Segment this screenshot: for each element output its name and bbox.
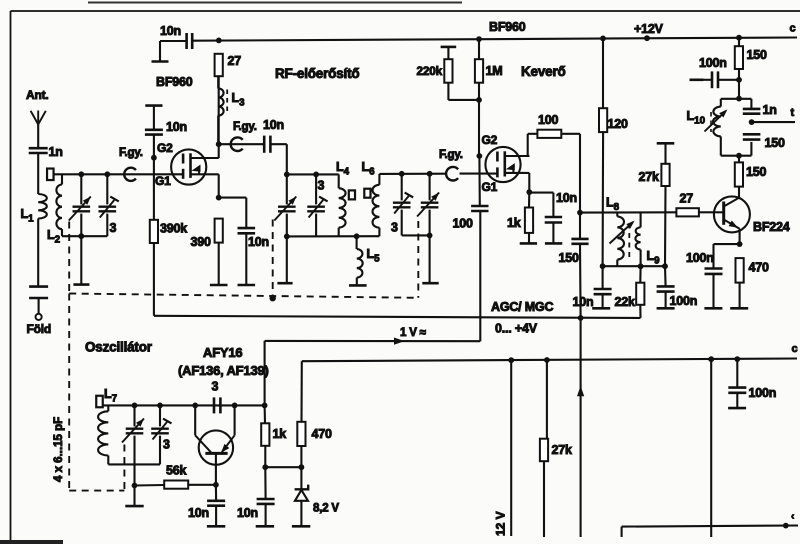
output tank frame bbox=[721, 98, 752, 100]
svg-text:c: c bbox=[792, 343, 798, 355]
inductor L6 bbox=[378, 174, 380, 185]
zener diode 8.2V bbox=[300, 467, 302, 489]
svg-text:10n: 10n bbox=[188, 506, 209, 520]
output tank bottom junction bbox=[736, 153, 742, 159]
wire source to 10n bypass bbox=[219, 197, 247, 199]
capacitor 100n to output tank bbox=[690, 79, 704, 82]
base wire AFY16 bbox=[215, 453, 217, 484]
capacitor 100n bottom right bbox=[736, 359, 738, 387]
trimmer C tuning (gang) input tank bbox=[80, 174, 82, 204]
svg-text:27: 27 bbox=[680, 192, 694, 206]
resistor 470 osc supply bbox=[297, 422, 305, 446]
svg-text:0... +4V: 0... +4V bbox=[495, 322, 538, 336]
resistor 100 mixer drain bbox=[537, 130, 561, 138]
capacitor 10n source bypass bbox=[238, 227, 256, 230]
capacitor 10n at G2 (top bar) bbox=[145, 104, 162, 107]
emitter 100n bypass bbox=[714, 243, 740, 245]
capacitor 10n osc emitter bbox=[264, 467, 266, 499]
wire G2 junction down to 390k (crosses G1 wire) bbox=[153, 158, 155, 220]
tank3 bottom wire bbox=[402, 234, 430, 236]
svg-text:BF960: BF960 bbox=[156, 75, 193, 89]
svg-text:10n: 10n bbox=[556, 191, 577, 205]
trimmer 3p input tank bbox=[106, 174, 108, 204]
capacitor 150 to AGC bbox=[579, 213, 581, 239]
wire osc tank to 56k node bbox=[133, 464, 135, 485]
capacitor 10n IF tank bottom bbox=[602, 266, 604, 289]
resistor 27 drain bbox=[218, 76, 220, 144]
emitter wire bbox=[739, 229, 741, 244]
tank3 ground stub bbox=[429, 235, 431, 283]
bottom bus wire bbox=[622, 526, 798, 527]
svg-text:100n: 100n bbox=[699, 56, 727, 70]
resistor 150 collector bbox=[738, 156, 740, 163]
output wire to edge bbox=[752, 121, 795, 123]
svg-text:100: 100 bbox=[453, 217, 474, 231]
resistor 27k lower bbox=[546, 360, 548, 439]
trimmer 3p tank2 bbox=[315, 174, 317, 204]
inductor L8 bbox=[616, 212, 618, 216]
osc output wire up bbox=[264, 341, 266, 406]
svg-text:10n: 10n bbox=[263, 118, 284, 132]
svg-text:100n: 100n bbox=[670, 294, 698, 308]
inductor L9 bbox=[640, 212, 642, 227]
gang dash from tank3 trimmer bbox=[417, 221, 419, 298]
svg-text:3: 3 bbox=[318, 179, 325, 193]
svg-text:AFY16: AFY16 bbox=[203, 345, 242, 360]
drain junction dot T1 bbox=[218, 144, 220, 158]
svg-text:390: 390 bbox=[191, 235, 212, 249]
svg-text:Oszcillátor: Oszcillátor bbox=[85, 340, 153, 355]
wire 390k to AGC corner bbox=[153, 243, 155, 316]
trimmer gang tank3 bbox=[429, 174, 431, 201]
capacitor 100 osc injection to G2 bbox=[478, 156, 480, 206]
core dashes L8-L9 bbox=[628, 224, 630, 258]
inductor L10 bbox=[713, 107, 721, 137]
transistor Q3 BF224 bbox=[714, 196, 750, 232]
wire antenna to L1 bbox=[37, 153, 39, 194]
wire down to interstage tank bbox=[286, 144, 288, 174]
wire 120 down to IF tank bottom bbox=[602, 132, 605, 266]
gang dash from tank2 trimmer bbox=[272, 220, 274, 298]
capacitor 100n IF bbox=[664, 266, 667, 286]
transistor T1 BF960 RF amp bbox=[171, 149, 206, 184]
svg-text:10n: 10n bbox=[573, 295, 594, 309]
svg-text:1n: 1n bbox=[763, 103, 777, 117]
svg-text:10n: 10n bbox=[237, 506, 258, 520]
wire down right section bbox=[710, 359, 712, 537]
inductor L5 bbox=[356, 236, 358, 249]
earth capacitor bbox=[29, 285, 48, 288]
tank3 top wire bbox=[379, 173, 446, 175]
resistor 470 emitter bbox=[736, 258, 744, 283]
svg-text:10n: 10n bbox=[166, 120, 187, 134]
svg-text:3: 3 bbox=[163, 438, 170, 452]
wire to Fold terminal bbox=[38, 298, 40, 315]
wire 100 ohm to IF tank top bbox=[579, 134, 581, 213]
transistor Q4 AFY16 bbox=[199, 430, 233, 464]
capacitor 3 osc feedback bbox=[213, 397, 216, 413]
svg-text:12 V: 12 V bbox=[494, 511, 508, 536]
inductor L2 bbox=[61, 174, 63, 184]
core symbol rects L4-L6 bbox=[349, 190, 355, 199]
svg-text:470: 470 bbox=[749, 261, 770, 275]
resistor 1k osc bbox=[264, 405, 266, 423]
wire 1k to zener node bbox=[265, 466, 301, 468]
oscillator injection wire bbox=[265, 340, 481, 342]
resistor 390k bbox=[150, 220, 158, 243]
svg-text:100n: 100n bbox=[686, 251, 714, 265]
12V feed line down bbox=[510, 360, 512, 536]
svg-text:470: 470 bbox=[312, 427, 333, 441]
ferrite bead arc on G1 wire bbox=[125, 173, 183, 175]
capacitor 10n top-left (supply decoupling) bbox=[160, 40, 187, 42]
svg-text:1M: 1M bbox=[486, 64, 503, 78]
bead arc mixer G1 bbox=[446, 167, 458, 181]
capacitor 10n mixer source bbox=[529, 192, 553, 194]
capacitor 150 output tank bbox=[743, 133, 761, 136]
svg-text:8,2 V: 8,2 V bbox=[313, 503, 339, 515]
svg-text:t: t bbox=[791, 107, 795, 119]
wire bus corner down to 470 bbox=[300, 361, 302, 422]
svg-text:10n: 10n bbox=[160, 24, 181, 38]
resistor 120 from rail bbox=[602, 38, 604, 108]
gang dash up to osc trimmer bbox=[123, 445, 125, 491]
svg-text:BF224: BF224 bbox=[753, 220, 790, 234]
IF tank bottom wire bbox=[603, 265, 665, 267]
svg-text:10n: 10n bbox=[248, 235, 269, 249]
svg-text:F.gy.: F.gy. bbox=[233, 121, 257, 133]
inductor L4 bbox=[338, 174, 340, 188]
ground stub of 10n bbox=[159, 41, 161, 61]
svg-text:390k: 390k bbox=[160, 222, 187, 236]
svg-text:56k: 56k bbox=[166, 464, 187, 478]
tank top wire to base resistor bbox=[580, 211, 676, 213]
resistor 1k mixer bbox=[525, 208, 533, 233]
gang dash corner to osc bbox=[68, 294, 70, 491]
svg-text:RF-előerősítő: RF-előerősítő bbox=[275, 66, 359, 81]
ferrite bead osc bbox=[96, 396, 103, 408]
svg-text:BF960: BF960 bbox=[489, 20, 526, 34]
svg-text:1n: 1n bbox=[49, 145, 63, 159]
IF tank top junction bbox=[577, 210, 583, 216]
source junction dot T1 bbox=[218, 174, 220, 197]
resistor 150 collector top bbox=[738, 38, 740, 47]
osc tank top wire bbox=[103, 404, 265, 406]
transistor T2 BF960 mixer bbox=[485, 147, 520, 182]
svg-text:G2: G2 bbox=[482, 133, 498, 147]
mixer source junction bbox=[528, 173, 530, 192]
svg-text:150: 150 bbox=[765, 136, 786, 150]
input tank ground stub bbox=[80, 236, 82, 284]
svg-text:100: 100 bbox=[538, 113, 559, 127]
resistor 27k base bias bbox=[657, 142, 675, 145]
capacitor 10n drain coupling bbox=[263, 136, 266, 153]
svg-text:1 V ≈: 1 V ≈ bbox=[400, 327, 427, 339]
svg-text:100n: 100n bbox=[749, 386, 777, 400]
svg-text:G1: G1 bbox=[155, 174, 171, 188]
border frame bbox=[10, 11, 12, 541]
svg-text:3: 3 bbox=[391, 221, 398, 235]
capacitor 1n antenna bbox=[29, 147, 48, 150]
wire 10n to G2 junction bbox=[153, 135, 155, 158]
+12V supply rail wire bbox=[194, 38, 798, 41]
AGC feed wire from below with arrow bbox=[580, 318, 582, 537]
svg-text:150: 150 bbox=[559, 251, 580, 265]
inductor L1 bbox=[38, 194, 47, 219]
wire 27k down crossing base wire bbox=[664, 186, 667, 266]
trimmer gang tank2 bbox=[286, 174, 288, 204]
svg-text:150: 150 bbox=[747, 48, 768, 62]
ferrite bead on G1 wire (rect) bbox=[47, 169, 54, 181]
tank2 ground stub bbox=[286, 236, 288, 283]
wire bead to mixer G1 bbox=[460, 173, 498, 175]
svg-text:Ant.: Ant. bbox=[26, 88, 49, 102]
AGC line bbox=[154, 316, 641, 318]
mixer drain wire to 100 ohm bbox=[528, 155, 530, 157]
wire L1 to earth cap bbox=[37, 219, 39, 287]
svg-text:F.gy.: F.gy. bbox=[119, 147, 143, 159]
divider bottom wire bbox=[448, 99, 479, 101]
G1 tank top wire bbox=[54, 173, 125, 175]
osc trimmer gang bbox=[133, 405, 135, 426]
interstage tank top wire left bbox=[287, 173, 339, 175]
svg-text:3: 3 bbox=[110, 221, 117, 235]
input tank bottom wire bbox=[62, 235, 107, 237]
svg-text:‹: ‹ bbox=[791, 511, 794, 522]
output tap junction bbox=[749, 119, 755, 125]
svg-text:4 x 6...15 pF: 4 x 6...15 pF bbox=[53, 417, 65, 482]
svg-text:27k: 27k bbox=[639, 170, 660, 184]
svg-text:Föld: Föld bbox=[27, 322, 52, 336]
svg-text:(AF136, AF139): (AF136, AF139) bbox=[178, 363, 269, 378]
resistor 56k bbox=[164, 481, 188, 489]
gang dashed vertical from input trimmer bbox=[68, 222, 70, 293]
svg-text:1k: 1k bbox=[273, 427, 287, 441]
inductor L7 bbox=[107, 405, 109, 411]
output tank top junction bbox=[736, 96, 742, 102]
wire 100 cap down to osc line bbox=[479, 211, 481, 341]
svg-text:150: 150 bbox=[746, 165, 767, 179]
svg-text:G2: G2 bbox=[157, 141, 173, 155]
12V bus lower bbox=[302, 359, 797, 362]
svg-text:3: 3 bbox=[212, 380, 219, 394]
osc ground stub bbox=[133, 486, 135, 506]
Fold terminal circle bbox=[36, 314, 42, 320]
resistor 220k bbox=[441, 46, 457, 49]
svg-text:AGC/ MGC: AGC/ MGC bbox=[491, 300, 553, 314]
svg-text:G1: G1 bbox=[482, 180, 498, 194]
osc trimmer 3p bbox=[159, 405, 161, 426]
svg-text:c: c bbox=[790, 23, 796, 35]
svg-text:27: 27 bbox=[228, 54, 242, 68]
drain output wire with bead bbox=[219, 143, 264, 145]
L8 tuning arrow bbox=[610, 222, 634, 244]
junction dots on rail bbox=[216, 38, 222, 44]
svg-text:27k: 27k bbox=[552, 443, 573, 457]
svg-text:F.gy.: F.gy. bbox=[439, 149, 463, 161]
svg-text:1k: 1k bbox=[507, 216, 521, 230]
osc tank bottom wire bbox=[108, 463, 160, 465]
resistor 390 source bbox=[215, 219, 223, 243]
resistor 1M bbox=[478, 39, 480, 59]
tank2 bottom wire bbox=[287, 235, 380, 237]
svg-text:220k: 220k bbox=[417, 64, 443, 78]
antenna symbol bbox=[31, 111, 39, 125]
svg-text:+12V: +12V bbox=[634, 22, 664, 36]
resistor 27 base bbox=[676, 208, 699, 216]
resistor 22k AGC bbox=[639, 266, 641, 282]
inductor L3 bbox=[217, 76, 219, 88]
trimmer 3p tank3 bbox=[401, 174, 403, 201]
capacitor 1n output bbox=[743, 108, 761, 111]
wire divider to mixer G2 bbox=[478, 100, 480, 156]
capacitor 10n osc base bbox=[215, 485, 217, 501]
svg-text:22k: 22k bbox=[615, 295, 636, 309]
svg-text:120: 120 bbox=[608, 117, 629, 131]
svg-text:Keverő: Keverő bbox=[521, 64, 566, 79]
gang dashed horizontal bbox=[69, 294, 417, 298]
L10 tuning arrow bbox=[705, 111, 726, 132]
